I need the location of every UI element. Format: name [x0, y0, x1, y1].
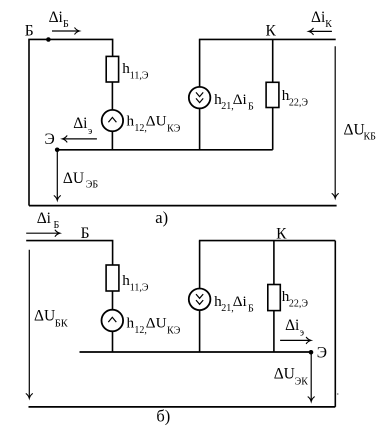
label б) caption [156, 406, 170, 425]
label h22,Э value (circuit a) [282, 87, 309, 109]
wire collector right side (circuit b) [334, 241, 336, 407]
label h21,Δiб value (circuit b) [214, 293, 254, 314]
svg-text:h: h [127, 315, 135, 332]
svg-text:22,Э: 22,Э [289, 298, 309, 309]
resistor h22,Э (circuit b) [268, 285, 281, 311]
label Δiк with subscript (circuit a) [311, 9, 332, 30]
wire emitter rail (circuit b) [80, 351, 312, 353]
label Э emitter terminal (circuit a) [45, 131, 55, 148]
node dot base terminal (circuit a) [46, 37, 51, 42]
source U3 h12,ΔUкэ (circuit b) [102, 310, 124, 332]
svg-text:Э: Э [45, 131, 55, 148]
wire h21 branch lower (circuit b) [199, 310, 201, 352]
svg-text:ΔU: ΔU [146, 315, 167, 332]
svg-text:КБ: КБ [364, 132, 377, 143]
label Б base terminal (circuit b) [81, 225, 90, 242]
svg-text:Δi: Δi [233, 91, 247, 108]
svg-text:ΔU: ΔU [344, 122, 365, 139]
svg-text:Δi: Δi [285, 317, 300, 334]
svg-text:ΔU: ΔU [274, 366, 295, 383]
wire left+top of circuit a base loop [29, 39, 113, 205]
wire bottom of circuit b [29, 406, 336, 408]
wire source h12 bottom to emitter rail (circuit b) [112, 331, 114, 352]
arrow ΔUбк voltage (circuit b) [26, 250, 33, 399]
label h22,Э value (circuit b) [282, 288, 309, 309]
resistor h11,Э (circuit a) [106, 56, 118, 82]
svg-text:э: э [88, 126, 92, 137]
svg-text:ΔU: ΔU [146, 112, 167, 129]
source U2 h21,Δiб current source (circuit a) [189, 87, 211, 109]
label а) caption [155, 208, 168, 227]
svg-text:Б: Б [81, 225, 90, 242]
label h21,Δiб value (circuit a) [214, 91, 254, 112]
svg-text:Δi: Δi [311, 9, 326, 26]
svg-text:ЭК: ЭК [295, 376, 309, 387]
svg-text:11,Э: 11,Э [130, 283, 149, 294]
node dot emitter terminal Э (circuit a) [55, 148, 60, 153]
svg-text:Δi: Δi [73, 115, 88, 132]
arrow ΔUкб voltage (circuit a) [332, 46, 339, 198]
wire K branch upper (circuit b) [273, 241, 275, 285]
label К collector terminal (circuit a) [266, 23, 277, 40]
label Δiэ with subscript (circuit b) [285, 317, 304, 338]
wire K branch upper (circuit a) [272, 39, 274, 82]
label ΔUэб voltage (circuit a) [63, 170, 99, 190]
svg-text:Э: Э [317, 344, 327, 361]
svg-text:БК: БК [55, 319, 69, 330]
wire base top (circuit b) [26, 241, 112, 265]
svg-text:ΔU: ΔU [34, 308, 55, 325]
svg-text:КЭ: КЭ [167, 326, 181, 337]
wire K branch lower (circuit a) [272, 108, 274, 150]
svg-text:б): б) [156, 406, 170, 425]
svg-text:Б: Б [248, 304, 254, 315]
svg-text:а): а) [155, 208, 168, 227]
wire h21 branch lower (circuit a) [199, 108, 201, 150]
svg-text:Б: Б [54, 220, 60, 231]
label h12,ΔUкэ value (circuit b) [127, 315, 181, 337]
arrow Δiэ current (circuit b) [280, 337, 311, 344]
svg-text:К: К [276, 226, 287, 243]
svg-text:h: h [127, 112, 135, 129]
wire source h12 bottom to emitter rail (circuit a) [111, 131, 113, 150]
source U1 h12,ΔUкэ (circuit a) [102, 110, 123, 131]
svg-text:ЭБ: ЭБ [86, 179, 99, 190]
svg-text:Δi: Δi [37, 210, 52, 227]
wire emitter rail (circuit a) [57, 149, 273, 151]
arrow Δiк current (circuit a) [309, 28, 332, 35]
arrow ΔUэк voltage (circuit b) [308, 354, 315, 402]
wire K branch lower (circuit b) [273, 311, 275, 352]
wire resistor R h11e to source h12 (circuit a) [111, 82, 113, 110]
svg-text:э: э [300, 327, 304, 338]
label h11,Э value (circuit b) [122, 272, 149, 294]
label Б base terminal (circuit a) [25, 23, 34, 40]
label Э emitter terminal (circuit b) [317, 344, 327, 361]
arrow Δiэ current (circuit a) [62, 135, 97, 142]
svg-text:КЭ: КЭ [167, 124, 181, 135]
label ΔUбк voltage (circuit b) [34, 308, 69, 330]
label h12,ΔUкэ value (circuit a) [127, 112, 181, 134]
svg-text:Δi: Δi [233, 293, 247, 310]
label ΔUэк voltage (circuit b) [274, 366, 309, 388]
svg-text:ΔU: ΔU [63, 170, 84, 187]
speck artifact dot [337, 393, 339, 395]
wire h21 branch upper (circuit b) [199, 241, 201, 289]
svg-text:Б: Б [63, 19, 69, 30]
svg-text:11,Э: 11,Э [130, 70, 149, 81]
label h11,Э value (circuit a) [122, 60, 149, 82]
arrow Δiб current (circuit b) [26, 230, 60, 237]
wire resistor h11 to source h12 (circuit b) [112, 291, 114, 310]
node dot emitter terminal Э (circuit b) [309, 350, 314, 355]
svg-text:Б: Б [248, 101, 254, 112]
source U4 h21,Δiб current source (circuit b) [189, 289, 211, 311]
resistor h11,Э (circuit b) [106, 265, 119, 291]
arrow ΔUэб voltage (circuit a) [54, 151, 61, 200]
wire collector loop top (circuit a) [199, 38, 336, 40]
label ΔUкб voltage (circuit a) [344, 122, 377, 143]
svg-text:22,Э: 22,Э [289, 98, 309, 109]
wire bottom of circuit a [29, 205, 337, 207]
wire h21 branch upper (circuit a) [199, 39, 201, 87]
label К collector terminal (circuit b) [276, 226, 287, 243]
label Δiб with subscript (circuit a) [49, 9, 69, 30]
arrow Δiб current (circuit a) [52, 28, 80, 35]
label Δiб with subscript (circuit b) [37, 210, 60, 231]
svg-text:К: К [325, 19, 332, 30]
label Δiэ with subscript (circuit a) [73, 115, 92, 137]
svg-text:Б: Б [25, 23, 34, 40]
svg-text:К: К [266, 23, 277, 40]
svg-text:Δi: Δi [49, 9, 64, 26]
wire collector loop top (circuit b) [199, 240, 335, 242]
resistor h22,Э (circuit a) [266, 82, 279, 107]
